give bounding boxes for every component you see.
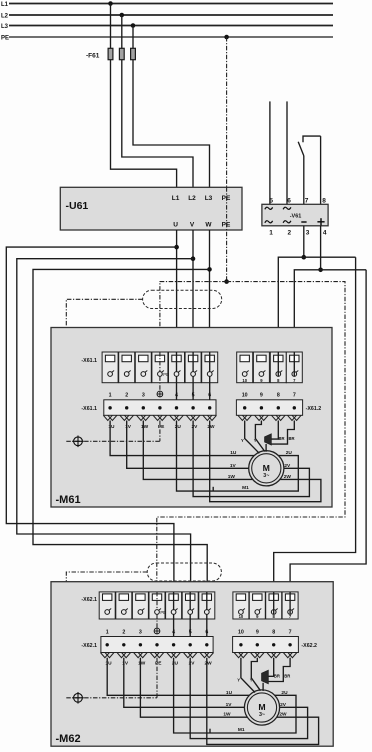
terminal block -X62.1 [101, 637, 213, 653]
svg-text:2U: 2U [281, 690, 288, 696]
svg-text:4: 4 [172, 630, 175, 636]
wire labels BR BR [274, 673, 290, 678]
wire 2W [207, 658, 319, 745]
svg-text:2U: 2U [172, 661, 179, 667]
motor unit box -M62 [51, 582, 333, 747]
net L2 rail [1, 14, 333, 20]
wire 2V [190, 658, 307, 739]
svg-text:5: 5 [269, 198, 273, 205]
svg-text:1U: 1U [226, 690, 233, 696]
motor unit box -M61 [51, 328, 332, 508]
wire to V61 pin 5 [269, 101, 271, 204]
svg-text:1W: 1W [141, 424, 149, 430]
svg-text:7: 7 [293, 393, 296, 399]
motor frame tick M1 [212, 487, 214, 491]
brake contact switch [298, 136, 320, 156]
svg-text:M: M [263, 463, 270, 473]
svg-text:5: 5 [189, 630, 192, 636]
svg-text:PE: PE [155, 661, 162, 667]
wire plus to X61.2-7 [294, 270, 366, 355]
svg-text:10: 10 [242, 393, 248, 399]
wire name labels [105, 661, 212, 667]
terminal block -X61.2 [236, 400, 302, 416]
wire 2W [210, 421, 321, 502]
svg-text:Y: Y [237, 677, 240, 682]
svg-text:1: 1 [106, 630, 109, 636]
brake wire from 7 [268, 658, 290, 682]
svg-text:2V: 2V [284, 463, 291, 469]
wire W to M62 [33, 269, 210, 593]
svg-text:-F61: -F61 [86, 53, 100, 60]
plug internal links -X62.1 [157, 592, 207, 637]
junction plus [318, 268, 323, 273]
connector strip -X61.2 [237, 352, 303, 383]
svg-text:L3: L3 [1, 24, 9, 30]
shield clamp [66, 692, 157, 704]
svg-text:2U: 2U [286, 450, 293, 456]
pin labels 1 2 3 4 [269, 230, 327, 237]
wire labels BR BR [278, 436, 294, 441]
svg-text:6: 6 [205, 630, 208, 636]
svg-text:1V: 1V [230, 463, 237, 469]
svg-text:PE: PE [1, 36, 9, 42]
svg-text:1W: 1W [138, 661, 146, 667]
svg-text:6: 6 [287, 198, 291, 205]
wire 1U [107, 658, 249, 696]
wire crimps -X61.2 [238, 415, 301, 420]
wire L2 to U61 [122, 15, 193, 187]
pin labels 5 6 7 8 [269, 198, 326, 205]
junction minus [302, 255, 307, 260]
svg-text:10: 10 [238, 630, 244, 636]
svg-text:9: 9 [256, 630, 259, 636]
svg-text:U: U [173, 222, 178, 229]
wire L3 to U61 [133, 26, 210, 188]
cable shield M62 [147, 563, 221, 581]
net PE rail [1, 36, 333, 42]
net L3 rail [1, 24, 333, 30]
svg-text:1U: 1U [230, 450, 237, 456]
svg-text:PE: PE [158, 424, 165, 430]
svg-text:2W: 2W [284, 474, 292, 480]
wire 1W [143, 421, 252, 480]
svg-text:4: 4 [175, 393, 178, 399]
shield clamp [66, 436, 160, 448]
svg-text:BR: BR [288, 436, 294, 441]
earth symbol PE [157, 391, 163, 397]
junction W [207, 267, 212, 272]
wire 2U [174, 658, 296, 733]
net L1 rail [1, 2, 333, 8]
brake wire from 7 [271, 421, 294, 445]
junction PE node [224, 279, 229, 284]
connector strip -X62.2 [233, 592, 298, 619]
svg-text:M1: M1 [238, 727, 245, 733]
shield bond wire M61 [66, 299, 142, 441]
svg-text:M1: M1 [242, 485, 249, 491]
wire plus to X62.2-7 [290, 270, 366, 594]
svg-text:8: 8 [272, 630, 275, 636]
svg-text:2W: 2W [204, 661, 212, 667]
wire V61-3 minus branch [303, 226, 305, 257]
svg-text:L3: L3 [205, 195, 213, 202]
brake wire from 10 [245, 421, 260, 454]
svg-text:6: 6 [208, 393, 211, 399]
earth symbol PE [154, 628, 160, 634]
svg-text:PE: PE [160, 610, 166, 615]
svg-text:3: 3 [306, 230, 310, 237]
wire 2V [193, 421, 309, 497]
wire W to X61.1 [209, 230, 211, 355]
svg-text:-X61.1: -X61.1 [81, 358, 97, 364]
cable shield M61 [143, 290, 222, 308]
fuse F61.1 [108, 48, 113, 59]
wire PE through U61 [226, 187, 228, 281]
wire PE to M61 [160, 282, 227, 356]
svg-text:-M61: -M61 [56, 494, 81, 506]
svg-text:2: 2 [287, 230, 291, 237]
wire to V61 pin 6 [286, 101, 288, 204]
svg-text:2V: 2V [280, 702, 287, 708]
wire minus to X62.2-8 [274, 257, 356, 594]
svg-text:2W: 2W [207, 424, 215, 430]
svg-text:3~: 3~ [259, 712, 265, 718]
svg-text:9: 9 [260, 393, 263, 399]
svg-text:BR: BR [284, 673, 290, 678]
wire 1V [124, 658, 245, 708]
wire crimps -X62.2 [234, 653, 297, 658]
wire 2U [177, 421, 299, 492]
svg-text:W: W [205, 222, 212, 229]
svg-text:7: 7 [289, 630, 292, 636]
brake rectifier V61 [262, 204, 328, 226]
brake wire from 9 [251, 658, 260, 691]
plug internal links -X61.1 [160, 352, 210, 400]
brake wire from 8 [271, 421, 278, 440]
wire V to M62 [17, 259, 193, 594]
wire V61-4 plus branch [320, 226, 322, 270]
svg-text:PE: PE [163, 372, 169, 377]
svg-text:1: 1 [109, 393, 112, 399]
svg-text:M: M [258, 702, 265, 712]
svg-text:Y: Y [241, 438, 244, 443]
svg-text:10: 10 [239, 614, 244, 619]
wire V to X61.1 [192, 230, 194, 355]
terminal block -X62.2 [233, 637, 299, 653]
wire U to M62 [6, 247, 176, 594]
svg-text:-X62.2: -X62.2 [301, 643, 317, 649]
wire minus to X61.2-8 [278, 257, 355, 355]
svg-text:4: 4 [323, 230, 327, 237]
svg-text:V: V [190, 222, 195, 229]
svg-text:7: 7 [305, 198, 309, 205]
junction PE tap [224, 35, 229, 40]
motor M61 [249, 451, 284, 486]
svg-text:8: 8 [277, 393, 280, 399]
wire labels Y Y [237, 677, 253, 682]
junction V [191, 256, 196, 261]
wire labels Y Y [241, 438, 257, 443]
wire PE stud to clamp line [156, 658, 158, 698]
svg-text:BR: BR [278, 436, 284, 441]
svg-text:2: 2 [125, 393, 128, 399]
svg-text:5: 5 [192, 393, 195, 399]
wire 1W [140, 658, 247, 718]
wire PE stud to clamp line [159, 421, 161, 442]
terminal numbers 10 9 8 7 [242, 393, 296, 399]
fuse F61.3 [131, 48, 136, 59]
svg-text:Y: Y [250, 677, 253, 682]
wire name labels [108, 424, 215, 430]
svg-text:2W: 2W [279, 712, 287, 718]
connector strip -X62.1 [99, 592, 215, 619]
svg-text:-X62.1: -X62.1 [81, 597, 97, 603]
svg-text:3: 3 [139, 630, 142, 636]
winding labels [228, 450, 293, 491]
wire L1 to U61 [111, 4, 177, 188]
svg-text:8: 8 [322, 198, 326, 205]
brake coil [265, 434, 272, 452]
brake wire from 8 [268, 658, 273, 677]
svg-text:-X62.1: -X62.1 [81, 643, 97, 649]
drive unit U61 [60, 187, 242, 230]
svg-text:1U: 1U [105, 661, 112, 667]
junction U [174, 245, 179, 250]
connector strip -X61.1 [102, 352, 218, 383]
wire PE to M62 [157, 282, 345, 594]
winding labels [223, 690, 288, 733]
svg-text:L1: L1 [1, 2, 9, 8]
svg-text:3~: 3~ [263, 473, 269, 479]
svg-text:1W: 1W [228, 474, 236, 480]
svg-text:L2: L2 [188, 195, 196, 202]
svg-text:-X61.1: -X61.1 [81, 406, 97, 412]
junction L1/fuse [108, 1, 113, 6]
svg-text:L1: L1 [172, 195, 180, 202]
brake coil [262, 670, 269, 691]
terminal numbers 10 9 8 7 [238, 630, 292, 636]
svg-text:Y: Y [254, 438, 257, 443]
wire crimps -X62.1 [100, 653, 213, 658]
svg-text:1V: 1V [226, 702, 233, 708]
svg-text:1W: 1W [223, 712, 231, 718]
wire U to X61.1 [176, 230, 178, 355]
motor frame tick M1 [209, 729, 211, 733]
junction L2/fuse [120, 13, 125, 18]
svg-text:10: 10 [242, 378, 247, 383]
wire switch to V61 pin 7 [303, 156, 305, 204]
terminal block -X61.1 [104, 400, 216, 416]
svg-text:2U: 2U [175, 424, 182, 430]
wire to V61 pin 8 [320, 136, 322, 204]
wire PE from rail to PE node [226, 37, 228, 187]
brake wire from 9 [255, 421, 264, 452]
motor M62 [244, 690, 279, 725]
fuse F61.2 [119, 48, 124, 59]
svg-text:-U61: -U61 [66, 200, 89, 212]
wire crimps -X61.1 [103, 415, 216, 420]
svg-text:BR: BR [274, 673, 280, 678]
terminal numbers 1-6 [106, 630, 209, 636]
svg-text:-V61: -V61 [290, 214, 302, 220]
svg-text:3: 3 [142, 393, 145, 399]
svg-text:1U: 1U [108, 424, 115, 430]
junction L3/fuse [131, 23, 136, 28]
svg-text:2: 2 [122, 630, 125, 636]
wire 1U [110, 421, 254, 456]
wire 1V [127, 421, 249, 469]
svg-text:-M62: -M62 [56, 733, 81, 745]
svg-text:-X61.2: -X61.2 [306, 406, 322, 412]
svg-text:L2: L2 [1, 14, 9, 20]
svg-text:1: 1 [269, 230, 273, 237]
brake wire from 10 [241, 658, 255, 693]
terminal numbers 1-6 [109, 393, 212, 399]
shield bond wire M62 [66, 572, 147, 698]
